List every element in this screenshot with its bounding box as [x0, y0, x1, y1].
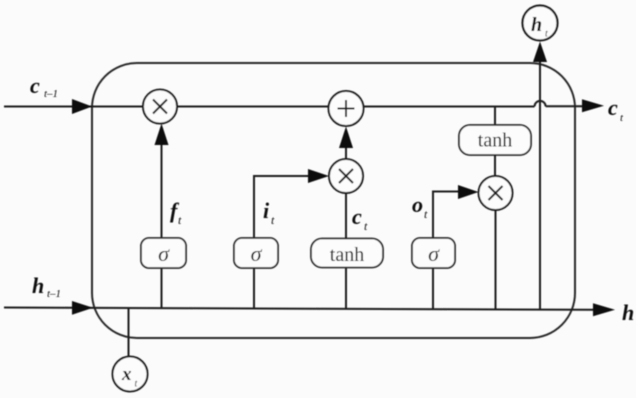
label c_t (right output)	[608, 95, 624, 124]
multiply node 2 (input gate x candidate)	[329, 159, 363, 193]
arrowhead: h_{t-1} input into cell	[72, 301, 93, 315]
wire: candidate path vertical below tanh	[345, 267, 347, 309]
svg-text:c: c	[30, 73, 40, 98]
svg-text:h: h	[622, 300, 634, 325]
label h (right output)	[622, 300, 634, 325]
multiply node x1 (on c line)	[143, 90, 177, 124]
wire: multiply node 3 down to h line	[495, 210, 497, 309]
wire: multiply node 2 up to add node	[345, 148, 347, 160]
svg-text:σ: σ	[428, 241, 440, 266]
svg-text:o: o	[412, 192, 423, 217]
svg-text:t: t	[424, 207, 428, 221]
label h_{t-1}	[32, 273, 61, 300]
arrowhead: c_t output	[582, 99, 604, 112]
wire: c line down to output tanh box	[494, 107, 496, 126]
arrowhead: up into h_t circle	[533, 42, 547, 63]
wire: c line after hop to output arrow	[546, 105, 584, 107]
node h_t (output circle)	[523, 6, 558, 41]
arrowhead: into add node	[339, 127, 353, 149]
svg-text:t: t	[178, 213, 182, 227]
label o_t	[412, 192, 428, 221]
label c_t (candidate)	[352, 204, 368, 233]
wire: h_t branch vertical up through cell	[539, 60, 541, 310]
arrowhead: c_{t-1} input into cell	[72, 99, 92, 114]
wire: h line (bottom, y=308)	[4, 308, 594, 310]
svg-text:t–1: t–1	[44, 88, 58, 100]
svg-text:i: i	[263, 198, 270, 223]
svg-text:c: c	[352, 204, 362, 229]
arrowhead: o_t into multiply node 3	[458, 185, 479, 199]
wire: output tanh to multiply node 3	[494, 155, 496, 176]
wire: c line hop over h_t vertical	[535, 101, 546, 107]
arrowhead: f_t into multiply node	[155, 124, 169, 146]
sigma box 2 (input gate)	[234, 238, 278, 268]
tanh box (output squash)	[459, 125, 531, 155]
label c_{t-1}	[30, 73, 58, 100]
svg-text:t: t	[135, 379, 138, 390]
sigma box 1 (forget gate)	[141, 238, 186, 268]
svg-text:t–1: t–1	[47, 288, 61, 300]
wire: tanh box top to multiply node 2	[345, 193, 347, 239]
svg-text:σ: σ	[158, 241, 170, 266]
wire: c line (cell state, horizontal y=106.5)	[4, 106, 535, 108]
label i_t	[263, 198, 275, 227]
arrowhead: h output	[593, 303, 615, 316]
svg-text:x: x	[121, 364, 132, 385]
wire: x_t junction down from h line	[128, 308, 130, 358]
tanh box (candidate)	[311, 239, 383, 268]
LSTM cell boundary (rounded rectangle)	[92, 63, 575, 338]
add node + (on c line)	[329, 91, 364, 126]
svg-text:t: t	[620, 112, 624, 124]
svg-text:σ: σ	[251, 241, 263, 266]
svg-text:t: t	[364, 219, 368, 233]
node x_t (input circle)	[113, 357, 148, 392]
svg-text:tanh: tanh	[330, 244, 364, 266]
arrowhead: i_t into multiply node 2	[308, 169, 329, 183]
wire: output gate vertical o_t then horizontal	[433, 192, 473, 310]
svg-text:t: t	[271, 213, 275, 227]
wire: forget gate vertical f_t	[161, 128, 163, 308]
label f_t	[170, 198, 182, 227]
svg-text:tanh: tanh	[478, 130, 512, 152]
svg-text:h: h	[32, 273, 44, 298]
wire: input gate vertical i_t then horizontal	[254, 176, 323, 309]
sigma box 3 (output gate)	[412, 238, 455, 268]
svg-text:h: h	[531, 14, 542, 36]
multiply node 3 (output)	[479, 176, 513, 210]
svg-text:t: t	[545, 29, 548, 40]
svg-text:c: c	[608, 95, 618, 120]
